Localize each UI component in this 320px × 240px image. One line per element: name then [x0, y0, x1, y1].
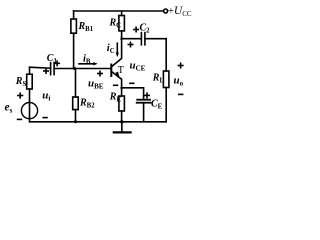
polarity minus of e_s — [18, 118, 22, 120]
wire top supply rail — [74, 10, 164, 12]
wire R_B2 bottom lead — [75, 110, 77, 122]
source e_s circle — [21, 103, 37, 119]
current arrow i_C — [116, 43, 119, 57]
node base junction — [73, 67, 76, 70]
polarity minus of u_BE — [114, 84, 118, 86]
node emitter junction — [120, 87, 123, 90]
transistor T base bar — [110, 65, 112, 77]
wire output node down to R_L — [165, 39, 167, 71]
wire C_E bottom lead — [143, 103, 145, 122]
wire bottom ground rail — [30, 121, 167, 123]
node ground junction — [120, 120, 123, 123]
polarity plus of u_BE — [98, 71, 102, 75]
resistor R_B1 — [71, 19, 77, 33]
ground — [114, 122, 131, 133]
transistor T collector lead — [112, 39, 122, 67]
polarity minus of u_CE — [130, 82, 134, 84]
node R_B2 ground junction — [74, 120, 77, 123]
wire R_C bottom lead to collector node — [121, 31, 123, 39]
svg-text:T: T — [118, 65, 124, 76]
current arrow i_B — [79, 62, 98, 65]
wire C1 to base — [54, 68, 110, 70]
node collector junction — [120, 37, 123, 40]
wire C2 to output node — [145, 38, 166, 40]
polarity plus of C1 — [55, 61, 59, 65]
transistor T emitter lead — [112, 72, 122, 88]
transistor T emitter arrowhead — [115, 72, 119, 79]
resistor R_s — [27, 74, 33, 89]
capacitor C_E — [137, 100, 151, 103]
wire R_E bottom lead — [121, 111, 123, 122]
wire R_s to source e_s — [29, 89, 31, 122]
capacitor C1 — [51, 63, 55, 75]
wire collector to C2 — [122, 38, 142, 40]
wire input to C1 — [30, 67, 51, 68]
wire R_s top lead — [29, 67, 31, 74]
polarity plus of u_o — [178, 63, 182, 67]
wire R_C top lead — [121, 11, 123, 16]
resistor R_E — [119, 96, 125, 111]
polarity plus of e_s — [18, 93, 23, 98]
wire R_L bottom lead — [165, 88, 167, 122]
resistor R_B2 — [73, 97, 79, 110]
polarity plus of C_E — [145, 93, 149, 97]
node +Ucc terminal — [164, 9, 168, 13]
resistor R_L — [163, 71, 169, 88]
wire R_B1 top lead — [73, 11, 75, 19]
polarity plus of C2 — [134, 27, 138, 31]
capacitor C2 — [141, 33, 145, 45]
polarity plus of u_CE — [128, 42, 132, 46]
resistor R_C — [119, 16, 125, 31]
polarity plus of u_i — [44, 69, 48, 73]
polarity minus of u_i — [43, 117, 47, 119]
polarity minus of u_o — [179, 93, 183, 95]
wire R_B1 bottom lead to base node — [73, 33, 75, 68]
wire R_E top lead — [121, 88, 123, 96]
wire emitter to C_E — [122, 88, 144, 100]
wire R_B2 top lead — [75, 69, 77, 98]
